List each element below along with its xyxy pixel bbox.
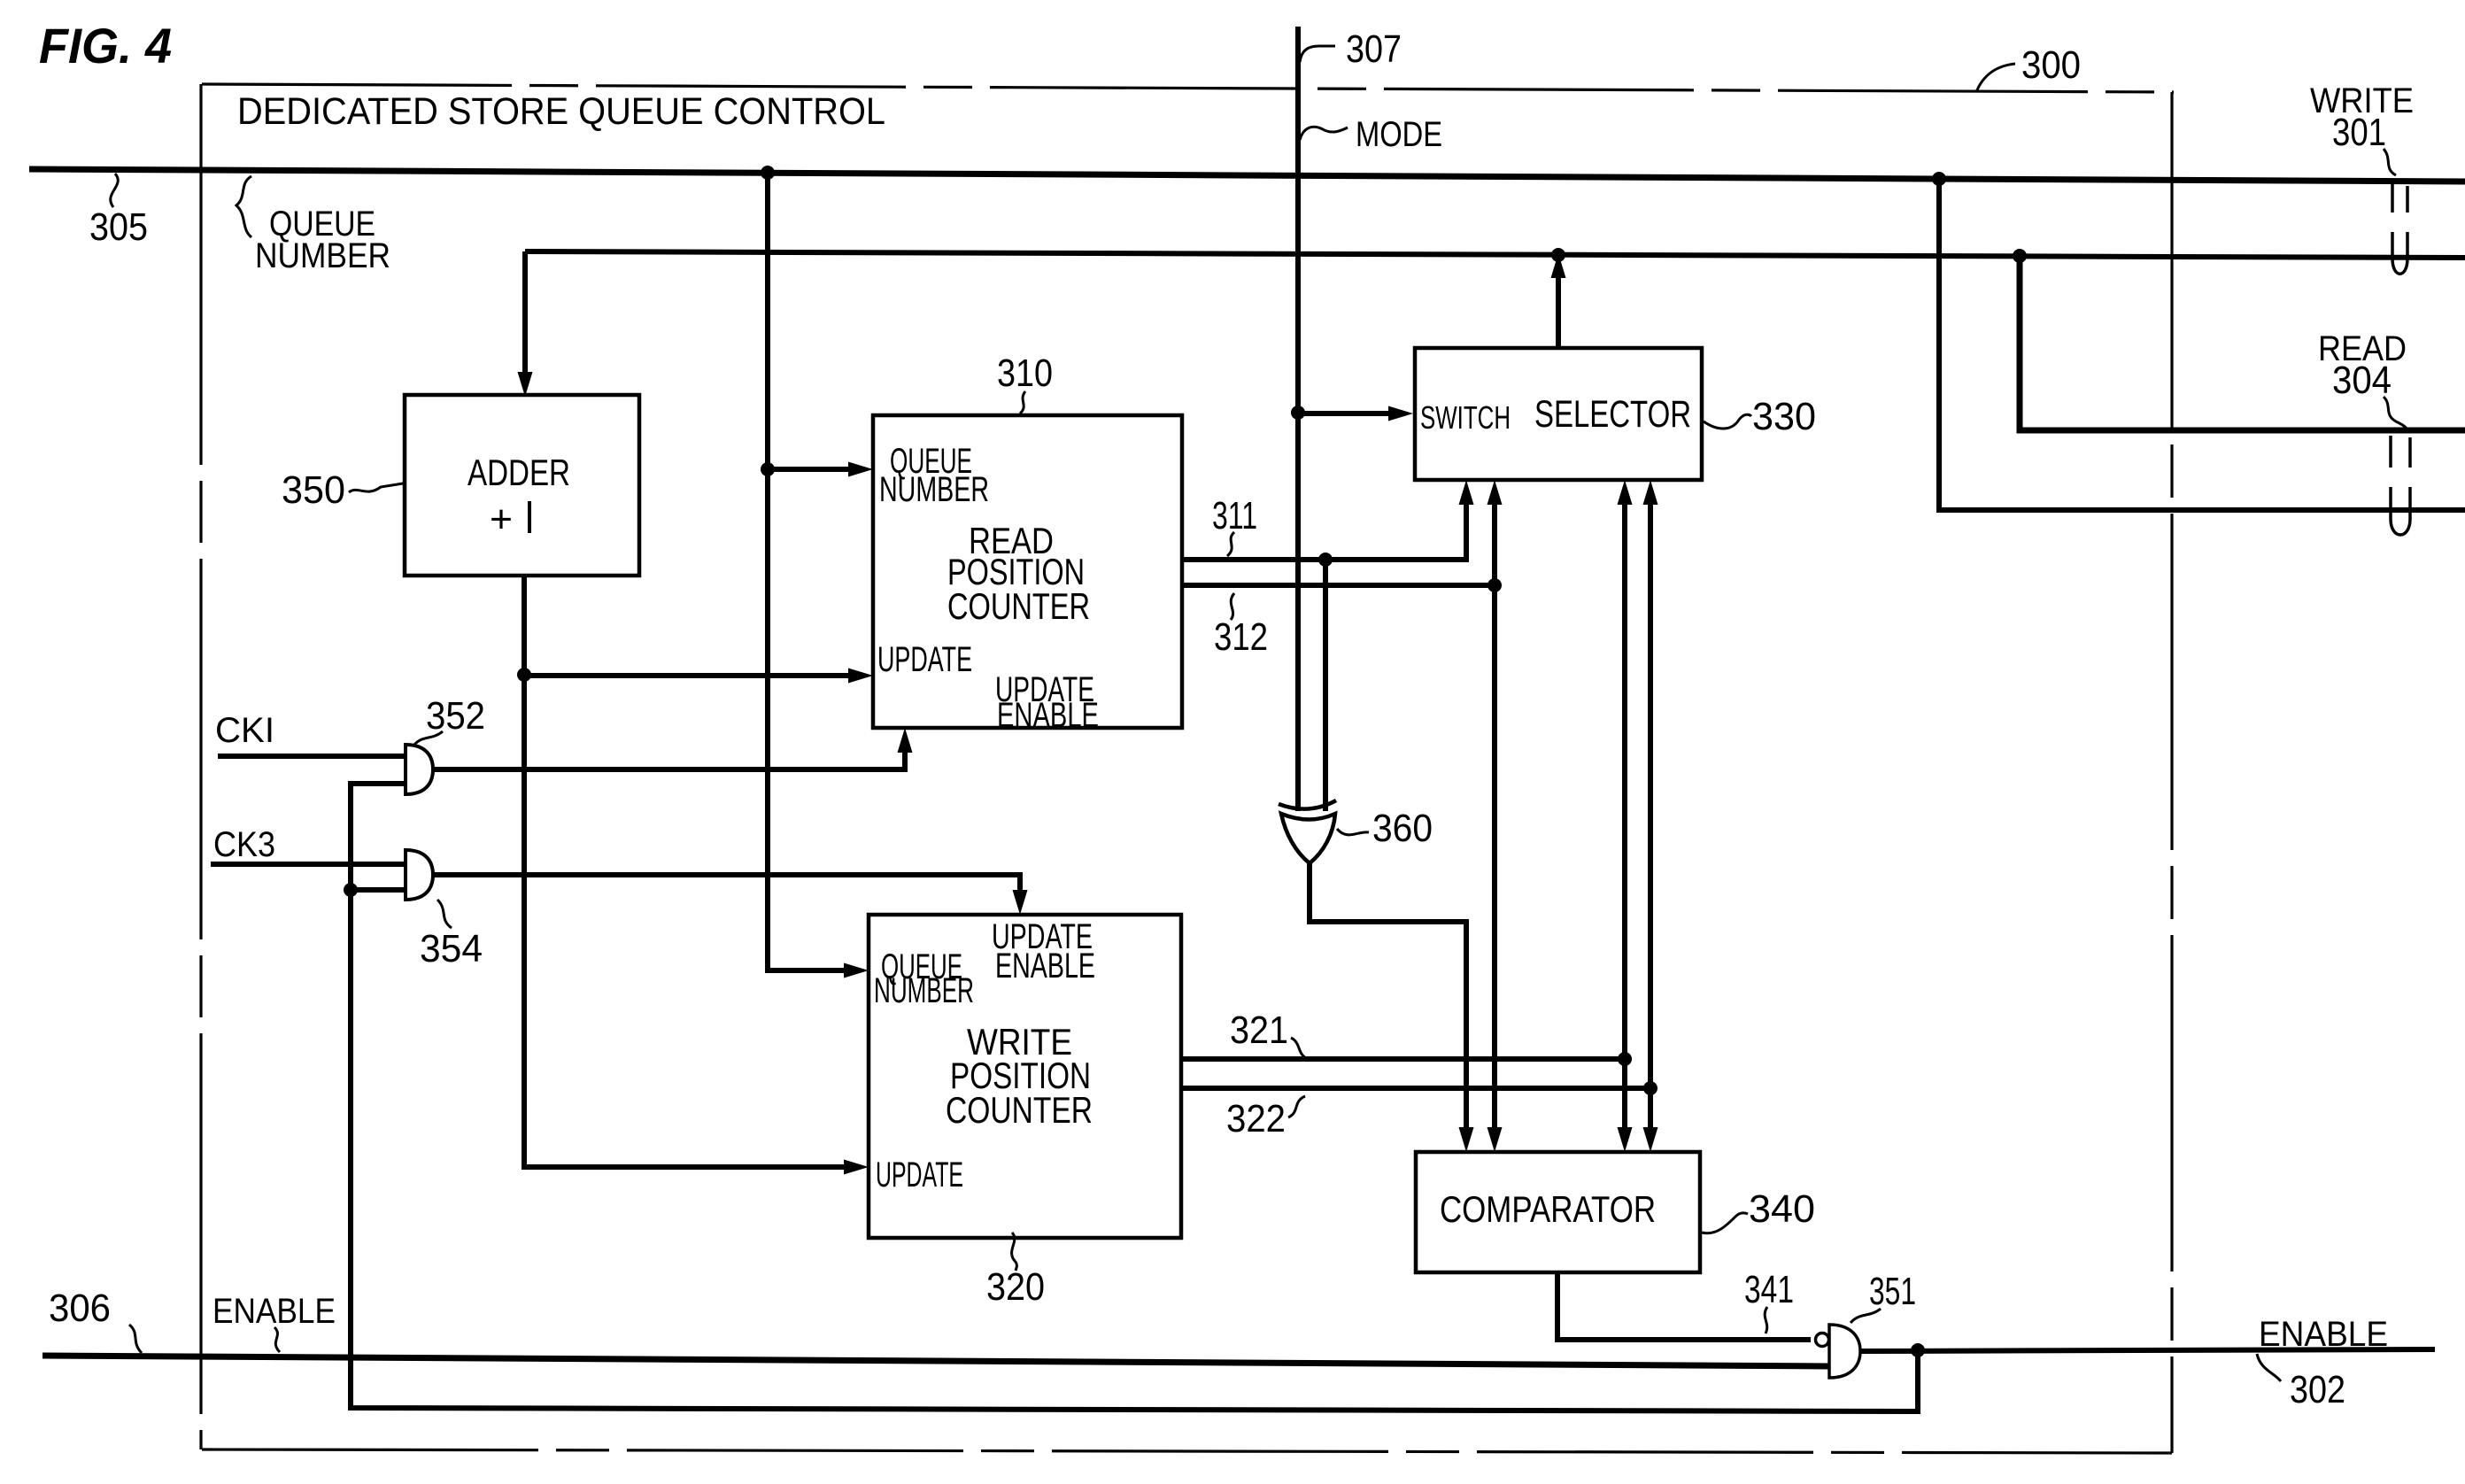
node: junction on enable output at feedback tap xyxy=(1911,1343,1925,1357)
svg-text:330: 330 xyxy=(1752,395,1816,438)
wire: xor output down, right, down to comparator input 1 xyxy=(1310,863,1474,1152)
label ENABLE (left) with squiggle xyxy=(212,1292,336,1352)
nand gate 351 body xyxy=(1829,1325,1860,1378)
label 351 with leader squiggle xyxy=(1851,1270,1916,1323)
selector block 330 xyxy=(1415,348,1702,480)
svg-text:ADDER: ADDER xyxy=(467,452,570,493)
label 330 with leader squiggle xyxy=(1704,395,1816,438)
svg-text:FIG. 4: FIG. 4 xyxy=(39,18,172,73)
wire: branch into READ counter UPDATE input xyxy=(524,669,873,684)
svg-text:ENABLE: ENABLE xyxy=(212,1292,336,1331)
label 300 with leader xyxy=(1976,43,2081,92)
wire: bus B corner down into ADDER input with arrow xyxy=(518,251,533,397)
wire 322: write counter second output to column 4 xyxy=(1181,1086,1650,1091)
wire: branch into READ counter QUEUE NUMBER input xyxy=(768,462,873,477)
wire: enable 302 output line to right edge xyxy=(1860,1349,2435,1351)
wire CK3 input line xyxy=(211,862,406,867)
node: junction on adder output at read-update tap xyxy=(517,668,531,682)
break symbol (cable cut) on READ 304 and WRITE out lines xyxy=(2391,436,2410,535)
svg-text:354: 354 xyxy=(420,927,483,970)
svg-text:SWITCH: SWITCH xyxy=(1420,399,1511,436)
node: junction of selector output on bus B xyxy=(1551,248,1565,262)
svg-text:ENABLE: ENABLE xyxy=(995,947,1095,985)
or gate 354 (CK3 gating) xyxy=(406,850,433,900)
node: junction on feedback at gate 354 lower input xyxy=(344,883,358,897)
svg-text:COUNTER: COUNTER xyxy=(946,1089,1093,1131)
label 305 with leader squiggle xyxy=(89,174,148,249)
wire CKI input line xyxy=(218,754,406,759)
svg-text:320: 320 xyxy=(986,1265,1045,1309)
label 307 with leader xyxy=(1300,27,1402,71)
label 322 with squiggle xyxy=(1226,1096,1305,1140)
node: junction on wire 322 xyxy=(1643,1081,1657,1095)
wire: feedback branch into gate 354 lower input xyxy=(351,887,406,893)
svg-text:+: + xyxy=(490,498,513,541)
node: junction on wire 311 at xor tap xyxy=(1318,553,1333,567)
svg-text:322: 322 xyxy=(1226,1097,1286,1140)
svg-text:UPDATE: UPDATE xyxy=(877,640,972,679)
label 321 with squiggle xyxy=(1230,1009,1308,1059)
svg-text:300: 300 xyxy=(2021,43,2081,87)
node: junction on wire 321 xyxy=(1618,1052,1632,1066)
svg-text:360: 360 xyxy=(1372,807,1433,850)
label READ 304 with squiggle xyxy=(2318,329,2407,429)
bus 305 QUEUE NUMBER (top horizontal bus, also WRITE 301 at right) xyxy=(29,169,2465,182)
wire: column 4 vertical from selector input 4 to comparator input 4 xyxy=(1643,480,1658,1152)
node: junction on MODE line at switch branch xyxy=(1291,406,1305,420)
wire: 311 branch down into XOR gate input xyxy=(1323,560,1328,811)
label 354 with squiggle xyxy=(420,900,483,970)
wire: adder output down, corner right into WRITE counter UPDATE input xyxy=(524,576,869,1175)
svg-text:NUMBER: NUMBER xyxy=(874,971,974,1010)
svg-text:NUMBER: NUMBER xyxy=(879,470,989,509)
label ENABLE 302 (right) with squiggle xyxy=(2257,1315,2388,1411)
label 360 with leader squiggle xyxy=(1337,807,1433,850)
wire 341: comparator output down and right to nand gate 351 xyxy=(1557,1272,1811,1340)
wire: enable feedback down, left and up to clock or-gates xyxy=(351,784,1918,1411)
break symbol (cable cut) on WRITE 301 and bus B at right edge xyxy=(2392,184,2407,274)
enable bus 306 (bottom input bus) xyxy=(42,1356,1829,1366)
dashed boundary box 300: DEDICATED STORE QUEUE CONTROL, top border xyxy=(202,84,2174,92)
dashed boundary box 300: right border xyxy=(2170,92,2173,1453)
wire 321: write counter output to selector/comparator column 3 xyxy=(1181,1056,1625,1062)
wire 312: read counter second output xyxy=(1182,583,1495,588)
node: junction on bus 305 at queue-number branch xyxy=(761,166,775,180)
svg-text:SELECTOR: SELECTOR xyxy=(1534,393,1691,436)
block title DEDICATED STORE QUEUE CONTROL xyxy=(237,90,885,133)
svg-text:ENABLE: ENABLE xyxy=(2259,1315,2388,1354)
node: junction on wire 312 xyxy=(1487,578,1502,592)
svg-text:CKI: CKI xyxy=(215,711,274,750)
svg-text:341: 341 xyxy=(1744,1268,1794,1311)
wire: MODE line 307 vertical xyxy=(1295,27,1301,811)
node: junction on bus 305 at write branch x=2190 xyxy=(1932,172,1946,186)
svg-text:DEDICATED STORE QUEUE CONTROL: DEDICATED STORE QUEUE CONTROL xyxy=(237,90,885,133)
svg-text:304: 304 xyxy=(2332,359,2392,402)
adder block 350 (ADDER +1) xyxy=(405,395,639,576)
or gate 352 (CK1 gating) xyxy=(406,745,433,794)
svg-text:321: 321 xyxy=(1230,1009,1288,1052)
bus: second horizontal line (selector output / read data line) xyxy=(525,251,2465,258)
svg-text:302: 302 xyxy=(2290,1368,2345,1411)
nand gate 351 input bubble xyxy=(1816,1333,1829,1347)
wire 311: read counter output to selector input 1 xyxy=(1182,480,1474,560)
wire: queue number vertical branch x=867 down to counters xyxy=(765,173,770,970)
svg-text:350: 350 xyxy=(282,468,345,512)
wire: READ 304 branch down and right to edge xyxy=(2020,256,2465,430)
wire: 312 vertical from selector input 2 down to comparator input 2 xyxy=(1487,480,1503,1152)
svg-text:340: 340 xyxy=(1749,1187,1815,1231)
comparator block 340 xyxy=(1416,1152,1700,1272)
svg-text:310: 310 xyxy=(997,352,1053,395)
svg-text:NUMBER: NUMBER xyxy=(255,236,390,275)
svg-text:COMPARATOR: COMPARATOR xyxy=(1440,1188,1656,1230)
wire: corner into WRITE counter QUEUE NUMBER input xyxy=(768,963,869,978)
svg-text:UPDATE: UPDATE xyxy=(876,1156,963,1194)
read position counter block 310 xyxy=(873,415,1182,735)
label 312 with squiggle xyxy=(1214,593,1268,659)
svg-text:COUNTER: COUNTER xyxy=(947,585,1090,627)
svg-text:351: 351 xyxy=(1869,1270,1916,1313)
node: junction on bus B at read branch x=2281 xyxy=(2013,249,2027,263)
svg-text:ENABLE: ENABLE xyxy=(997,696,1099,735)
wire: MODE branch into selector SWITCH input xyxy=(1298,406,1413,421)
svg-text:311: 311 xyxy=(1212,494,1257,537)
svg-text:MODE: MODE xyxy=(1356,115,1442,154)
svg-text:301: 301 xyxy=(2332,111,2386,154)
svg-text:306: 306 xyxy=(49,1287,111,1330)
dashed boundary box 300: left border xyxy=(199,84,202,1449)
label 311 with squiggle xyxy=(1212,494,1257,556)
svg-text:CK3: CK3 xyxy=(213,825,275,864)
label QUEUE NUMBER with brace xyxy=(236,176,390,275)
wire: column 3 vertical from selector input 3 to comparator input 3 xyxy=(1618,480,1633,1152)
xor gate 360 (inputs MODE and 311) xyxy=(1279,800,1336,863)
label 306 with squiggle xyxy=(49,1287,142,1353)
node: junction at read counter queue number tap xyxy=(761,462,775,476)
label MODE with leader squiggle xyxy=(1300,115,1442,154)
svg-text:305: 305 xyxy=(89,205,148,249)
wire: WRITE branch down and right to edge xyxy=(1939,179,2465,510)
label 320 with squiggle xyxy=(986,1233,1045,1309)
label 352 with squiggle xyxy=(414,694,485,745)
figure title FIG. 4 xyxy=(39,18,172,73)
label 341 with squiggle xyxy=(1744,1268,1794,1333)
wire: selector output up to bus B with arrow xyxy=(1551,253,1566,348)
svg-text:352: 352 xyxy=(426,694,485,738)
wire: gate 352 output right then up into READ counter UPDATE ENABLE xyxy=(433,728,913,769)
label CK3 xyxy=(213,825,275,864)
write position counter block 320 xyxy=(869,915,1181,1238)
label 340 with leader squiggle xyxy=(1702,1187,1815,1233)
label 310 with squiggle xyxy=(997,352,1053,414)
svg-text:312: 312 xyxy=(1214,615,1268,659)
label WRITE 301 with squiggle xyxy=(2310,81,2414,175)
dashed boundary box 300: bottom border xyxy=(202,1449,2172,1453)
label CKI xyxy=(215,711,274,750)
wire: gate 354 output right then down into WRITE counter UPDATE ENABLE xyxy=(433,875,1028,915)
svg-text:307: 307 xyxy=(1346,27,1402,71)
label 350 with squiggle xyxy=(282,468,403,512)
